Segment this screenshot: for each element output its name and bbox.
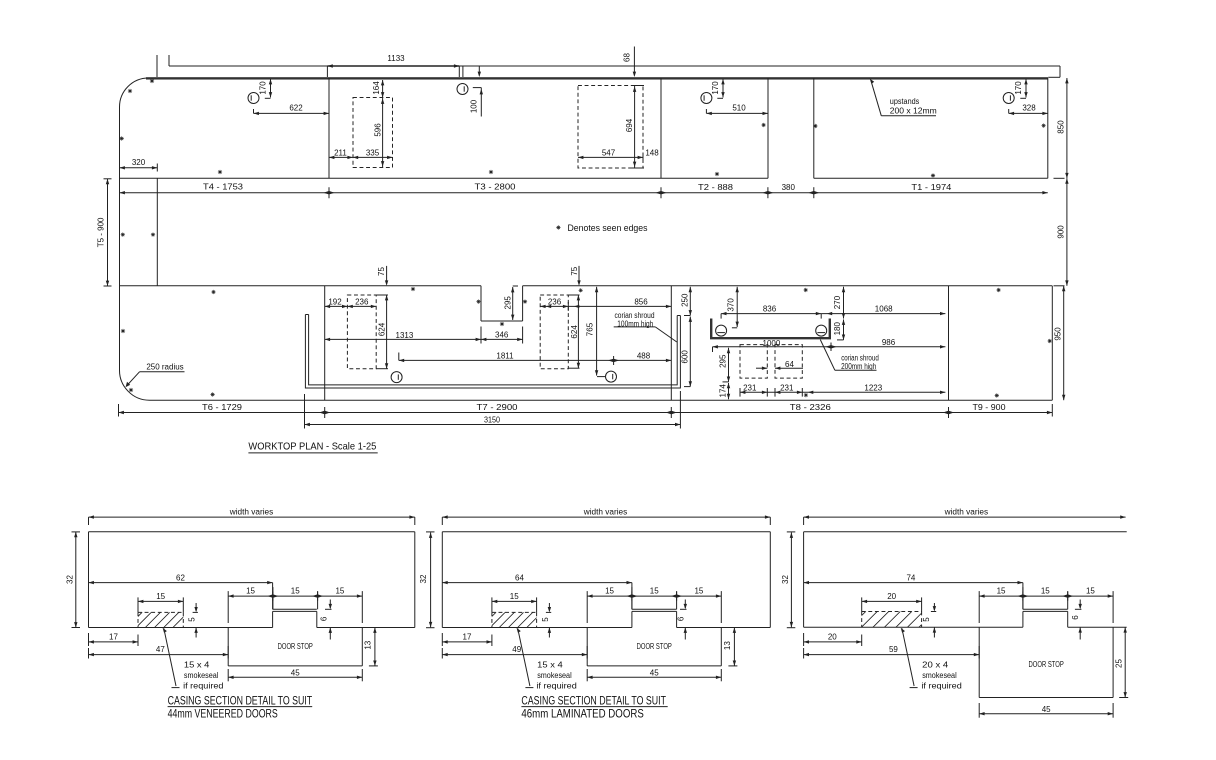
svg-text:49: 49: [512, 645, 521, 654]
svg-text:T9 - 900: T9 - 900: [973, 403, 1007, 412]
svg-text:T3 - 2800: T3 - 2800: [475, 183, 517, 192]
dashed appliance box bottom middle: [540, 295, 568, 369]
section3 dimension 6 rebate: [1079, 600, 1081, 609]
dimension 765: [596, 287, 598, 376]
svg-text:231: 231: [743, 384, 757, 393]
section3 door stop: [978, 627, 980, 697]
svg-text:47: 47: [156, 645, 165, 654]
svg-text:CASING SECTION DETAIL TO SUIT: CASING SECTION DETAIL TO SUIT: [168, 696, 313, 708]
svg-text:200 x 12mm: 200 x 12mm: [890, 107, 937, 116]
dimension 295 sink notch: [512, 287, 514, 320]
svg-text:170: 170: [711, 81, 720, 95]
dimension 174: [728, 383, 730, 399]
svg-text:600: 600: [681, 350, 690, 364]
svg-text:856: 856: [634, 298, 648, 307]
dashed box cupboard A: [740, 345, 767, 379]
tap hole circle 1: [248, 93, 259, 104]
svg-text:15: 15: [694, 587, 703, 596]
top worktop right edge: [1047, 78, 1049, 178]
section2 dimension 47/49/59: [442, 654, 587, 656]
dimension 180: [843, 320, 845, 340]
dimension 170 at circle 1: [270, 79, 272, 98]
svg-text:1133: 1133: [387, 54, 405, 63]
dimension 170 at circle 3: [722, 79, 724, 98]
svg-text:335: 335: [366, 148, 380, 157]
svg-text:T4 - 1753: T4 - 1753: [203, 183, 244, 192]
dimension 75 right stub: [578, 266, 580, 284]
svg-text:1068: 1068: [875, 305, 893, 314]
dimension 295 left cupboards: [728, 348, 730, 382]
worktop dimension band line T4 T3 T2 380 T1: [120, 192, 1048, 194]
dimension 836 between tap holes: [721, 313, 821, 315]
svg-text:15 x 4: 15 x 4: [537, 660, 563, 669]
down arrow at x479 to upstand: [478, 66, 480, 76]
section1 dimension 45 door stop width: [228, 676, 362, 678]
svg-text:148: 148: [645, 148, 659, 157]
svg-text:15: 15: [335, 587, 344, 596]
svg-text:488: 488: [637, 351, 651, 360]
dimension 1068: [821, 313, 945, 315]
bottom worktop top edge with sink notch: [120, 285, 482, 287]
svg-text:328: 328: [1022, 104, 1036, 113]
svg-text:5: 5: [922, 617, 931, 622]
dimension 1313: [325, 338, 481, 340]
section1 extension lines door stop: [227, 591, 229, 623]
svg-text:T1 - 1974: T1 - 1974: [911, 183, 952, 192]
svg-text:380: 380: [782, 183, 796, 192]
svg-text:64: 64: [515, 574, 524, 583]
svg-text:1313: 1313: [396, 331, 414, 340]
svg-text:547: 547: [602, 148, 616, 157]
dimension 510: [706, 112, 768, 114]
section2 dimension 15/20 above smokeseal: [492, 600, 537, 602]
svg-text:if required: if required: [921, 681, 961, 690]
svg-text:1811: 1811: [496, 351, 514, 360]
dimension 1000 and 986: [713, 346, 946, 348]
section2 door groove rebate: [632, 608, 677, 610]
dimension 100 at circle 2: [473, 87, 482, 89]
svg-text:smokeseal: smokeseal: [922, 671, 957, 680]
dimension 346 below notch: [481, 338, 523, 340]
dimension 900 right side: [1066, 178, 1068, 285]
upstands 200x12mm leader note: [871, 80, 882, 116]
upstand band 200x12mm (plan): [146, 77, 1048, 79]
section1 dimension 17/20 lower: [89, 641, 139, 643]
svg-text:5: 5: [188, 617, 197, 622]
dashed appliance box bottom left: [347, 295, 376, 369]
tap hole circle 2: [457, 84, 468, 95]
svg-text:15: 15: [156, 592, 165, 601]
top worktop left edge and rounded corner: [120, 78, 149, 370]
svg-text:15: 15: [1086, 587, 1095, 596]
svg-text:DOOR STOP: DOOR STOP: [278, 642, 313, 651]
dimension 320: [120, 167, 158, 169]
svg-text:width varies: width varies: [944, 507, 989, 516]
tap hole circle 8: [816, 325, 827, 336]
svg-text:32: 32: [781, 575, 790, 584]
svg-text:width varies: width varies: [229, 507, 274, 516]
svg-text:20: 20: [828, 632, 837, 641]
svg-text:200mm high: 200mm high: [841, 362, 876, 371]
section2 dimension 13/25 door stop depth: [733, 628, 735, 666]
svg-text:15: 15: [1041, 587, 1050, 596]
svg-text:836: 836: [763, 305, 777, 314]
section3 smokeseal leader and note: [902, 628, 914, 686]
dimension T5 - 900: [107, 179, 109, 286]
svg-text:46mm LAMINATED DOORS: 46mm LAMINATED DOORS: [521, 709, 644, 721]
dimension 3150: [305, 424, 681, 426]
svg-text:75: 75: [377, 267, 386, 276]
svg-text:smokeseal: smokeseal: [184, 671, 219, 680]
dimension 164: [382, 80, 384, 98]
corian shroud 100mm outer line: [305, 315, 680, 389]
worktop joint T4/T3: [328, 78, 330, 178]
svg-text:100: 100: [470, 99, 479, 113]
bottom worktop right edge: [1051, 286, 1053, 400]
section2 door stop: [586, 628, 588, 666]
dimension 68 arrow to upstand: [633, 47, 635, 76]
bottom worktop bottom edge: [150, 399, 1053, 401]
svg-text:T6 - 1729: T6 - 1729: [202, 403, 243, 412]
svg-text:17: 17: [463, 632, 472, 641]
wall line above worktop: [169, 65, 327, 67]
svg-text:75: 75: [570, 266, 579, 275]
svg-text:T2 - 888: T2 - 888: [698, 183, 734, 192]
svg-text:CASING SECTION DETAIL TO SUIT: CASING SECTION DETAIL TO SUIT: [521, 696, 666, 708]
svg-text:32: 32: [419, 574, 428, 583]
worktop joint T8/T9: [948, 286, 950, 400]
seen edge stars top worktop: [128, 89, 132, 93]
section3 dimension 17/20 lower: [804, 641, 862, 643]
section3 dimension 5 smokeseal depth: [933, 603, 935, 610]
svg-text:45: 45: [1042, 705, 1051, 714]
svg-text:624: 624: [378, 322, 387, 336]
svg-text:346: 346: [495, 330, 509, 339]
section1 dimension 15/20 above smokeseal: [138, 600, 183, 602]
svg-text:59: 59: [889, 645, 898, 654]
top worktop bottom edge right piece T1: [814, 177, 1048, 179]
svg-text:370: 370: [726, 298, 735, 312]
svg-text:270: 270: [833, 295, 842, 309]
svg-text:320: 320: [132, 158, 146, 167]
tap hole circle 7: [716, 325, 727, 336]
section2 width varies dimension: [442, 516, 770, 518]
svg-text:622: 622: [289, 104, 303, 113]
left 32 dimension section1: [75, 532, 77, 628]
svg-text:13: 13: [723, 641, 732, 650]
tap hole circle 3: [701, 93, 712, 104]
section3 dimension 62/64/74: [804, 582, 1023, 584]
svg-text:3150: 3150: [484, 416, 500, 425]
dimension 694: [634, 86, 636, 169]
dimension 547: [578, 156, 643, 158]
top worktop bottom edge left piece: [120, 177, 769, 179]
right 32 dimension section2/3: [790, 533, 792, 628]
dashed appliance box under T3 right: [578, 86, 643, 169]
dimension 170 at circle 4: [1025, 79, 1027, 98]
svg-text:upstands: upstands: [890, 97, 920, 106]
dimension 622: [254, 112, 330, 114]
svg-text:T7 - 2900: T7 - 2900: [477, 403, 519, 412]
T5 strip right edge: [156, 178, 158, 285]
svg-text:1223: 1223: [864, 384, 882, 393]
dimension 370: [736, 287, 738, 327]
svg-text:510: 510: [732, 104, 746, 113]
dimension 850 right side: [1066, 78, 1068, 178]
svg-text:DOOR STOP: DOOR STOP: [1029, 660, 1064, 669]
svg-text:45: 45: [650, 669, 659, 678]
section2 dimensions 15 15 15: [587, 595, 721, 597]
section1 door stop: [227, 628, 229, 666]
section1 door groove rebate: [273, 608, 317, 610]
section3 dimension 47/49/59: [804, 654, 980, 656]
section2 extension lines door stop: [586, 591, 588, 623]
section1 dimension 47/49/59: [89, 654, 229, 656]
section1 dimension 5 smokeseal depth: [195, 603, 197, 611]
worktop joint T7/T8: [670, 286, 672, 400]
section3 dimension 13/25 door stop depth: [1124, 627, 1126, 697]
section3 casing rectangle: [804, 531, 1127, 533]
svg-text:17: 17: [109, 632, 118, 641]
section1 dimensions 15 15 15: [228, 595, 362, 597]
dimension 270: [843, 287, 845, 319]
section2 dimension 6 rebate: [684, 600, 686, 609]
svg-text:44mm VENEERED DOORS: 44mm VENEERED DOORS: [168, 709, 278, 721]
bottom dimension band T6 T7 T8 T9: [119, 412, 1053, 414]
section2 casing rectangle: [442, 531, 770, 533]
top worktop top edge: [149, 77, 1048, 79]
svg-text:15: 15: [650, 587, 659, 596]
svg-text:DOOR STOP: DOOR STOP: [637, 642, 672, 651]
svg-text:236: 236: [548, 298, 562, 307]
svg-text:20 x 4: 20 x 4: [922, 660, 949, 669]
dimension 192: [325, 305, 348, 307]
seen edge stars bottom worktop: [121, 329, 125, 333]
section3 extension lines door stop: [978, 591, 980, 623]
dashed appliance box under T3 left: [353, 98, 393, 168]
section3 dimensions 15 15 15: [979, 595, 1113, 597]
svg-text:231: 231: [780, 384, 794, 393]
section3 dimension 45 door stop width: [979, 713, 1113, 715]
dimensions 231 231 1223: [740, 391, 945, 393]
section1 smokeseal leader and note: [164, 628, 176, 686]
section1 dimension 6 rebate: [329, 600, 331, 609]
wall end ticks top-left: [156, 55, 158, 77]
svg-text:smokeseal: smokeseal: [537, 671, 572, 680]
svg-text:Denotes seen edges: Denotes seen edges: [568, 223, 648, 234]
dimension 600 shroud right: [689, 317, 691, 387]
worktop joint T3/T2: [660, 78, 662, 178]
corian shroud 100mm inner line: [309, 315, 678, 385]
svg-text:13: 13: [363, 640, 372, 649]
worktop piece T2 right edge: [767, 78, 769, 178]
corian shroud 200mm high U profile: [711, 319, 830, 339]
worktop joint T6/T7: [324, 286, 326, 400]
svg-text:25: 25: [1115, 659, 1124, 668]
dimension 1811 and 488: [399, 359, 672, 361]
svg-text:180: 180: [833, 321, 842, 335]
svg-text:950: 950: [1053, 327, 1062, 341]
svg-text:74: 74: [906, 574, 915, 583]
svg-text:211: 211: [334, 148, 347, 157]
svg-text:170: 170: [259, 81, 268, 95]
svg-text:6: 6: [1071, 615, 1080, 620]
svg-text:15: 15: [997, 587, 1006, 596]
dimension 236 middle box and 856: [540, 305, 671, 307]
svg-text:174: 174: [719, 384, 728, 398]
svg-text:62: 62: [176, 574, 185, 583]
dimension 211: [329, 156, 353, 158]
section2 dimension 5 smokeseal depth: [548, 603, 550, 611]
svg-text:624: 624: [570, 325, 579, 339]
section1 smokeseal hatched box: [138, 611, 183, 613]
svg-text:T5 - 900: T5 - 900: [97, 217, 106, 247]
bottom worktop rounded bottom-left corner: [119, 370, 149, 401]
dimension 64 between cupboards: [756, 367, 767, 369]
dimension 1133 on wall line: [327, 65, 459, 67]
svg-text:15: 15: [246, 587, 255, 596]
note denotes seen edges: [556, 225, 560, 229]
svg-text:6: 6: [677, 616, 686, 621]
svg-text:15: 15: [510, 592, 519, 601]
svg-text:164: 164: [372, 81, 381, 95]
svg-text:900: 900: [1056, 225, 1065, 239]
svg-text:6: 6: [319, 616, 328, 621]
worktop piece T1 left edge: [813, 78, 815, 178]
section3 smokeseal hatched box: [862, 611, 922, 613]
svg-text:236: 236: [355, 298, 369, 307]
dimension 950 right side: [1063, 286, 1065, 400]
section1 dimension 62/64/74: [89, 582, 273, 584]
svg-text:T8 - 2326: T8 - 2326: [790, 403, 832, 412]
dimension 250 shroud right: [689, 287, 691, 316]
svg-text:295: 295: [503, 296, 512, 310]
svg-text:170: 170: [1014, 81, 1023, 95]
tap hole circle 6: [606, 371, 617, 382]
svg-text:765: 765: [586, 322, 595, 336]
svg-text:if required: if required: [536, 681, 576, 690]
svg-text:295: 295: [719, 354, 728, 368]
svg-text:15: 15: [291, 587, 300, 596]
dimension 624 left box: [386, 295, 388, 369]
svg-text:15: 15: [605, 587, 614, 596]
middle 32 dimension section1/2: [430, 533, 432, 628]
svg-text:596: 596: [373, 123, 382, 137]
svg-text:WORKTOP PLAN - Scale 1-25: WORKTOP PLAN - Scale 1-25: [248, 440, 376, 452]
section2 dimension 17/20 lower: [442, 641, 492, 643]
tap hole circle 5: [391, 372, 402, 383]
svg-text:45: 45: [291, 669, 300, 678]
section1 width varies dimension: [89, 516, 415, 518]
section2 smokeseal hatched box: [492, 611, 537, 613]
section2 dimension 62/64/74: [442, 582, 632, 584]
dimension 596: [382, 98, 384, 168]
section3 width varies dimension: [804, 516, 1126, 518]
section1 dimension 13/25 door stop depth: [374, 628, 376, 666]
dimension 624 middle box: [577, 295, 579, 368]
section3 dimension 15/20 above smokeseal: [862, 600, 922, 602]
svg-text:68: 68: [623, 53, 632, 62]
dashed box cupboard B: [775, 345, 802, 379]
svg-text:986: 986: [882, 338, 896, 347]
dimension 75 left stub: [386, 266, 388, 284]
section3 door groove rebate: [1023, 608, 1068, 610]
svg-text:64: 64: [785, 360, 794, 369]
dimension 236 left box: [347, 305, 376, 307]
tap hole circle 4: [1003, 93, 1014, 104]
svg-text:20: 20: [887, 592, 896, 601]
svg-text:850: 850: [1056, 120, 1065, 134]
svg-text:250: 250: [681, 293, 690, 307]
section2 dimension 45 door stop width: [587, 676, 721, 678]
section2 smokeseal leader and note: [518, 628, 530, 686]
svg-text:5: 5: [541, 617, 550, 622]
svg-text:width varies: width varies: [583, 507, 628, 516]
svg-text:250 radius: 250 radius: [146, 363, 183, 372]
dimension 335: [353, 156, 393, 158]
svg-text:694: 694: [625, 118, 634, 132]
svg-text:32: 32: [66, 575, 75, 584]
svg-text:if required: if required: [183, 681, 223, 690]
section1 casing rectangle: [89, 531, 415, 533]
svg-text:15 x 4: 15 x 4: [184, 660, 210, 669]
dimension 328: [1009, 112, 1048, 114]
svg-text:192: 192: [328, 298, 342, 307]
svg-text:1000: 1000: [763, 339, 781, 348]
